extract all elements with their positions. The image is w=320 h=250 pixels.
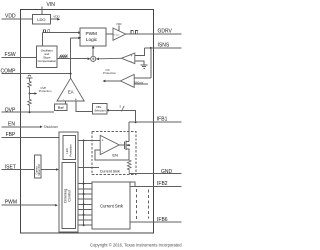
svg-text:EN: EN [112, 153, 118, 158]
svg-text:Logic: Logic [86, 37, 98, 42]
svg-text:LED: LED [65, 148, 69, 153]
wire: slope ramp to summing node [57, 57, 90, 60]
wire: current mirror to dimming block [41, 168, 59, 171]
svg-text:+: + [130, 54, 132, 58]
svg-text:Ref: Ref [58, 106, 65, 110]
svg-text:IFB1: IFB1 [157, 117, 168, 123]
LED protection block [63, 136, 76, 160]
wire: ISNS to OC comparator [134, 77, 151, 79]
replication dashed line A [135, 189, 137, 220]
svg-text:VDD: VDD [5, 14, 16, 20]
svg-text:EN: EN [8, 122, 15, 128]
svg-text:ISET: ISET [5, 164, 16, 170]
svg-text:VDD: VDD [53, 14, 60, 18]
summing node [91, 56, 96, 61]
node: COMP junction [70, 73, 72, 75]
replication dashed line B [148, 190, 150, 219]
wire: sink enable line [78, 167, 99, 169]
OVP protection tap arrow [29, 86, 52, 95]
svg-text:+: + [102, 139, 104, 143]
clock pulse glyph [43, 30, 49, 33]
wire: summing node to PWM logic [92, 46, 95, 57]
FBx selection block [93, 104, 107, 114]
pin IFB2 [130, 182, 181, 186]
dimming/protection container [59, 132, 78, 232]
svg-text:OVP: OVP [5, 108, 16, 114]
sink op-amp [100, 135, 119, 154]
pin FSW [2, 56, 37, 58]
svg-text:IFB2: IFB2 [157, 181, 168, 187]
svg-text:VIN: VIN [47, 2, 56, 8]
pin EN / shutdown arrow [2, 125, 59, 129]
wire: COMP/EA output to PWM logic [71, 37, 82, 79]
bus slash 3 [119, 105, 124, 112]
current sense amplifier [121, 53, 134, 64]
svg-text:Current Sink: Current Sink [100, 203, 124, 208]
wire: ISNS to sense amp + input [135, 48, 145, 56]
pin IFB1 [129, 121, 181, 123]
Ref block [55, 101, 68, 111]
current mirror block [35, 155, 42, 178]
pin VDD [2, 18, 33, 20]
svg-text:EA: EA [68, 90, 74, 95]
sink MOSFET Q1 [119, 141, 130, 161]
pin ISNS [145, 47, 182, 49]
svg-text:COMP: COMP [1, 68, 17, 74]
LDO regulator [32, 15, 50, 25]
wire: MOSFET drain to IFB1 [128, 122, 130, 141]
resistor R-ovp2 [28, 94, 32, 113]
svg-text:FBP: FBP [6, 132, 16, 138]
svg-text:-: - [102, 149, 103, 153]
svg-text:ISNS: ISNS [158, 43, 170, 49]
oscillator and slope compensation block [37, 46, 58, 67]
current sink 2-6 block [92, 182, 130, 229]
svg-text:Control: Control [68, 190, 72, 202]
wire: oscillator clock to PWM logic [42, 31, 81, 46]
svg-text:Protection: Protection [103, 71, 116, 75]
svg-text:GDRV: GDRV [158, 29, 173, 35]
svg-text:Compensation: Compensation [37, 59, 56, 63]
svg-text:PWM: PWM [5, 200, 17, 206]
wire: driver output to GDRV [126, 33, 182, 35]
svg-text:560mV: 560mV [135, 80, 144, 84]
gate pulse glyph [131, 31, 138, 34]
node: ISNS junction [150, 47, 152, 78]
svg-text:Mirror 8XP: Mirror 8XP [38, 163, 41, 175]
pin VIN [41, 7, 43, 15]
svg-text:Protection: Protection [68, 144, 72, 157]
ground [141, 65, 148, 69]
svg-text:Protection: Protection [39, 89, 52, 93]
svg-text:VDD: VDD [116, 22, 122, 26]
svg-text:PWM: PWM [86, 31, 98, 36]
svg-text:FSW: FSW [5, 52, 16, 58]
wire: sense amp - input to ground [135, 61, 144, 65]
gate driver [113, 22, 126, 41]
VDD rail arrow out of LDO [51, 14, 61, 20]
overcurrent comparator [120, 74, 134, 87]
sawtooth ramp glyph [59, 55, 67, 58]
dimming channel wires [78, 183, 92, 227]
svg-text:Driver: Driver [114, 33, 120, 36]
current sink 1 dashed box [92, 132, 136, 175]
wire: EA + input from FBx selection [76, 101, 93, 111]
OVP divider top terminal [26, 75, 32, 81]
pin OVP [2, 111, 55, 113]
OC protection output arrow [103, 68, 121, 83]
pin PWM [2, 204, 58, 207]
svg-text:Shutdown: Shutdown [44, 125, 58, 129]
wire: sense amp output to summing node [96, 58, 121, 61]
wire: sink - input feedback [95, 150, 129, 160]
pin GND [129, 173, 181, 175]
EN block [112, 153, 118, 158]
wire: current sink reference bus [78, 140, 100, 226]
dimming control block [62, 163, 75, 229]
svg-text:Selection: Selection [94, 108, 106, 112]
node: IFB1 tap [106, 109, 137, 123]
svg-text:GND: GND [161, 169, 173, 175]
IC outer border [21, 10, 154, 234]
pin COMP [2, 73, 71, 75]
reference 560mV [134, 80, 148, 84]
svg-text:Copyright © 2016, Texas Instru: Copyright © 2016, Texas Instruments Inco… [90, 242, 182, 247]
pin IFB6 [130, 221, 181, 223]
pin FBP [2, 137, 60, 139]
svg-text:Current Sink: Current Sink [100, 170, 120, 174]
svg-text:FBx: FBx [96, 105, 101, 109]
error amplifier EA [57, 78, 84, 101]
resistor R-sense [127, 160, 131, 173]
svg-text:IFB6: IFB6 [157, 217, 168, 223]
resistor R-ovp1 [28, 81, 32, 93]
pin ISET [2, 169, 35, 171]
wire: PWM logic to gate driver [106, 33, 113, 35]
svg-text:LDO: LDO [37, 17, 45, 22]
PWM logic block [80, 28, 106, 46]
